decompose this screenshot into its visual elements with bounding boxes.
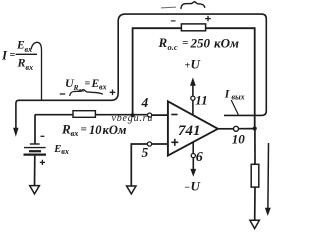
svg-text:вх: вх bbox=[26, 63, 34, 72]
svg-text:5: 5 bbox=[142, 145, 149, 160]
svg-text:I: I bbox=[1, 48, 8, 63]
svg-text:vbegu.ru: vbegu.ru bbox=[112, 113, 154, 124]
svg-text:вх: вх bbox=[25, 45, 33, 54]
svg-text:250: 250 bbox=[190, 35, 211, 50]
svg-text:вых: вых bbox=[232, 92, 245, 101]
svg-text:I: I bbox=[224, 88, 230, 100]
svg-text:о.с: о.с bbox=[168, 42, 178, 52]
svg-text:R: R bbox=[17, 56, 26, 70]
svg-text:вх: вх bbox=[61, 147, 69, 156]
svg-text:4: 4 bbox=[141, 95, 149, 110]
svg-text:10: 10 bbox=[89, 123, 102, 137]
svg-text:вх: вх bbox=[79, 88, 85, 94]
svg-text:U: U bbox=[191, 56, 201, 71]
svg-text:E: E bbox=[53, 144, 61, 155]
svg-text:вх: вх bbox=[99, 83, 107, 92]
svg-text:=: = bbox=[10, 50, 16, 61]
svg-text:10: 10 bbox=[232, 131, 246, 146]
svg-text:R: R bbox=[158, 35, 168, 50]
svg-text:=: = bbox=[85, 79, 91, 90]
svg-text:кОм: кОм bbox=[103, 123, 127, 137]
svg-text:=: = bbox=[182, 37, 188, 49]
svg-text:11: 11 bbox=[195, 93, 207, 108]
svg-text:−: − bbox=[184, 182, 190, 193]
svg-text:U: U bbox=[191, 178, 201, 193]
svg-text:=: = bbox=[81, 124, 87, 136]
svg-text:кОм: кОм bbox=[214, 35, 239, 50]
svg-text:вх: вх bbox=[71, 128, 80, 138]
svg-text:741: 741 bbox=[178, 123, 201, 139]
svg-text:R: R bbox=[61, 122, 71, 137]
svg-text:6: 6 bbox=[196, 150, 203, 165]
